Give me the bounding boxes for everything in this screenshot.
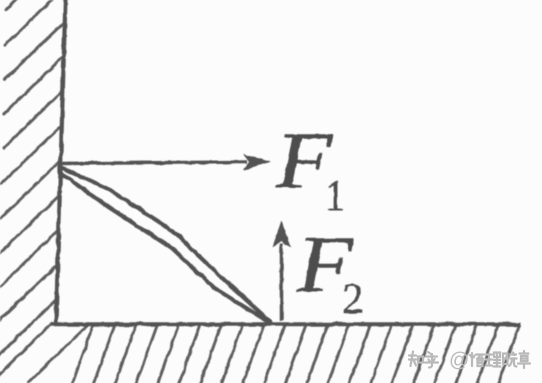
force F2 arrowhead (273, 220, 291, 248)
wall hatching (0, 0, 66, 357)
svg-text:2: 2 (342, 276, 364, 323)
wall line (56, 0, 66, 323)
svg-text:1: 1 (325, 173, 345, 220)
force F2 arrow shaft (280, 243, 284, 321)
floor line (51, 322, 521, 326)
force F1 arrowhead (243, 154, 271, 170)
svg-text:@: @ (449, 350, 469, 372)
floor hatching (0, 324, 519, 383)
watermark 知乎 @悟理晓章 (409, 351, 530, 368)
force F1 arrow shaft (60, 162, 247, 164)
rod (60, 167, 271, 324)
